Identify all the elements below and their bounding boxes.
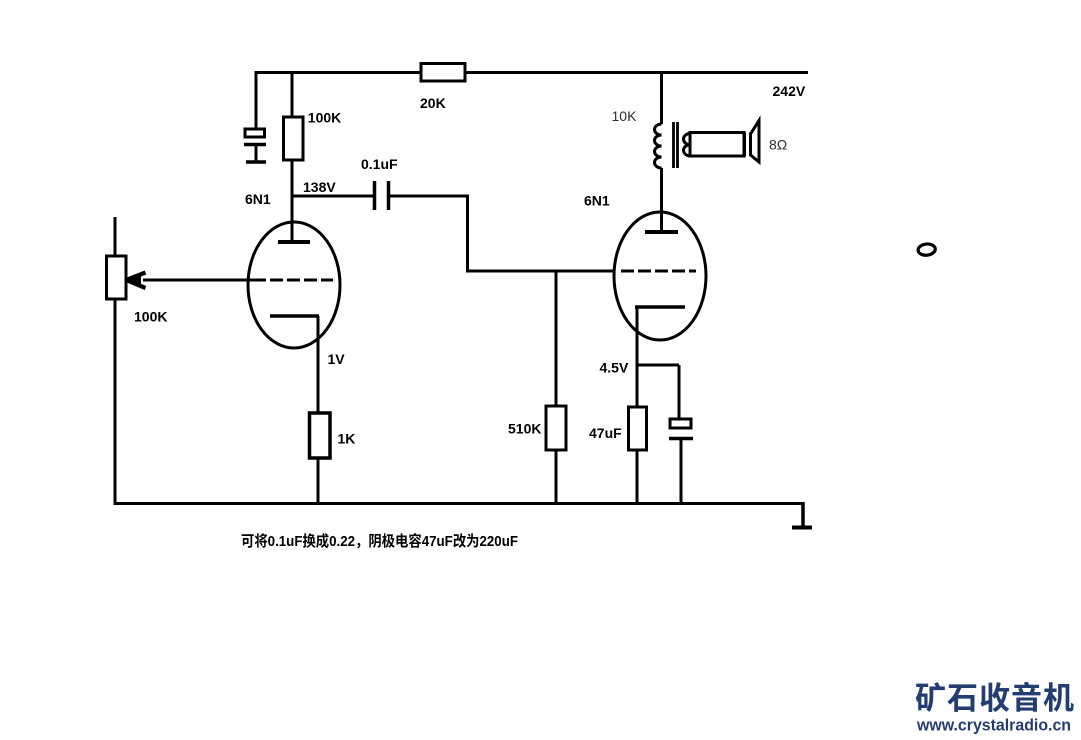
potentiometer RV1 body [107, 256, 127, 299]
triode V1 cathode bar [270, 314, 319, 318]
svg-text:10K: 10K [612, 108, 638, 124]
wire node 138V to coupling cap [292, 195, 373, 198]
triode V1 envelope [248, 222, 340, 348]
wire transformer to V2 plate [660, 168, 663, 232]
capacitor C2 0.1uF left plate [373, 181, 377, 210]
svg-text:242V: 242V [773, 83, 806, 99]
triode V2 grid dashed [621, 270, 696, 273]
svg-text:47uF: 47uF [589, 425, 622, 441]
resistor R3 510K [546, 406, 566, 450]
wire top rail right segment [465, 71, 808, 74]
wire C1 stub [255, 146, 258, 161]
capacitor C3 bypass bottom plate [669, 437, 693, 441]
resistor 20K [421, 64, 465, 82]
wire 510K drop [555, 271, 558, 406]
svg-text:138V: 138V [303, 179, 336, 195]
wire to grid of V2 [466, 270, 614, 273]
svg-text:www.crystalradio.cn: www.crystalradio.cn [916, 715, 1071, 734]
svg-text:0.1uF: 0.1uF [361, 156, 398, 172]
wire top rail left segment [256, 71, 421, 74]
svg-text:可将0.1uF换成0.22，阴极电容47uF改为220uF: 可将0.1uF换成0.22，阴极电容47uF改为220uF [241, 532, 518, 550]
triode V2 plate bar [645, 230, 678, 234]
wire 1K to ground rail [317, 458, 320, 505]
resistor R2 1K [310, 413, 331, 458]
capacitor C2 0.1uF right plate [387, 181, 391, 210]
transformer T1 primary winding [655, 124, 662, 168]
speaker cone [751, 121, 760, 163]
speaker body box [690, 133, 744, 157]
svg-text:20K: 20K [420, 95, 446, 111]
capacitor C1 filter top plate [245, 129, 265, 137]
wire B+ filter branch [255, 71, 258, 129]
wire 510K to ground rail [555, 450, 558, 505]
resistor R1 100K [284, 117, 304, 160]
svg-text:100K: 100K [308, 109, 341, 125]
svg-text:100K: 100K [134, 309, 167, 325]
wire R1 to plate node [291, 160, 294, 242]
small ellipse mark [918, 243, 936, 256]
svg-text:4.5V: 4.5V [600, 359, 629, 375]
wire bypass cap drop [678, 365, 681, 419]
transformer T1 core [674, 122, 678, 168]
svg-text:1V: 1V [328, 351, 346, 367]
triode V2 envelope [614, 212, 706, 340]
wire V1 cathode down [317, 316, 320, 413]
wire 4.5V node to bypass cap [637, 364, 679, 367]
ground bar under C1 [246, 160, 266, 164]
speaker coil lines [745, 133, 751, 157]
wire C3 to ground rail [680, 439, 683, 506]
wire V2 cathode down [636, 307, 639, 407]
capacitor C1 filter bottom plate [244, 143, 266, 147]
resistor cathode 47uF box [629, 407, 647, 450]
triode V1 plate bar [278, 240, 310, 244]
transformer T1 secondary winding [684, 134, 691, 156]
svg-text:510K: 510K [508, 421, 541, 437]
wire 100K plate resistor drop [291, 71, 294, 117]
potentiometer wiper arrow [126, 273, 146, 289]
svg-text:1K: 1K [338, 430, 356, 446]
wire pot bottom to ground rail [114, 299, 117, 505]
wire 47uF to ground rail [636, 450, 639, 505]
triode V2 cathode bar [635, 305, 685, 309]
wire top rail to transformer [660, 71, 663, 124]
wire bottom ground rail [115, 502, 803, 505]
svg-text:6N1: 6N1 [245, 191, 271, 207]
wire corner down [466, 196, 469, 271]
svg-text:8Ω: 8Ω [769, 136, 787, 152]
triode V1 grid dashed [270, 279, 333, 282]
wire ground drop right [801, 502, 805, 527]
ground symbol bar [792, 526, 812, 530]
svg-text:矿石收音机: 矿石收音机 [915, 681, 1074, 716]
wire coupling cap to corner [390, 195, 469, 198]
capacitor C3 bypass top plate [670, 419, 691, 428]
potentiometer top stub [114, 217, 117, 256]
wire grid of V1 to pot wiper [143, 279, 266, 282]
svg-text:6N1: 6N1 [584, 193, 610, 209]
